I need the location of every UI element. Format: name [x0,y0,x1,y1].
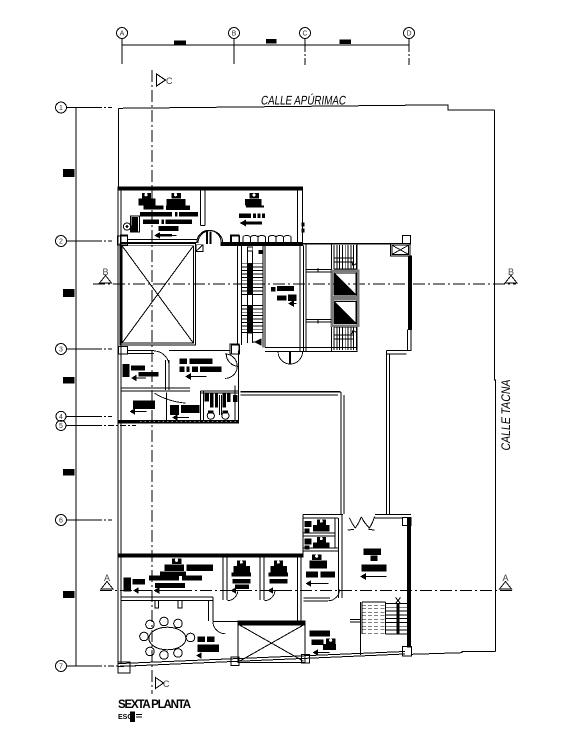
svg-text:2: 2 [59,239,63,246]
svg-text:C: C [302,31,307,38]
svg-text:4: 4 [59,414,63,421]
svg-text:1: 1 [59,105,63,112]
svg-text:5: 5 [59,423,63,430]
svg-text:CALLE TACNA: CALLE TACNA [499,378,513,451]
svg-text:B: B [508,267,514,277]
svg-text:7: 7 [59,664,63,671]
svg-text:B: B [232,31,237,38]
svg-text:6: 6 [59,518,63,525]
svg-text:SEXTA PLANTA: SEXTA PLANTA [118,699,191,711]
svg-text:A: A [120,31,125,38]
svg-text:D: D [406,31,411,38]
svg-text:C: C [163,679,170,689]
svg-text:3: 3 [59,347,63,354]
svg-text:A: A [503,573,509,583]
svg-text:A: A [104,573,110,583]
svg-text:CALLE APÚRIMAC: CALLE APÚRIMAC [260,92,347,107]
svg-text:C: C [166,76,173,86]
svg-text:B: B [103,267,109,277]
